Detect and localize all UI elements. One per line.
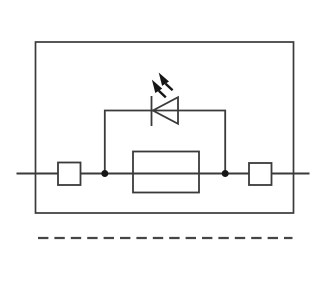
LED emission arrow lower: [152, 80, 166, 98]
LED triangle: [153, 97, 178, 124]
wire LED branch: [105, 111, 225, 174]
terminal clamp left: [58, 163, 81, 186]
mounting rail dashed line: [38, 237, 293, 239]
terminal clamp right: [249, 163, 272, 185]
wire right lead: [272, 173, 310, 175]
enclosure outline (terminal block body): [36, 42, 294, 213]
junction right: [222, 170, 229, 177]
fuse F1: [133, 152, 199, 193]
wire left lead: [17, 173, 59, 175]
LED cathode bar: [151, 96, 153, 126]
wire center: [81, 173, 250, 175]
junction left: [101, 170, 108, 177]
LED emission arrow upper: [159, 73, 173, 91]
